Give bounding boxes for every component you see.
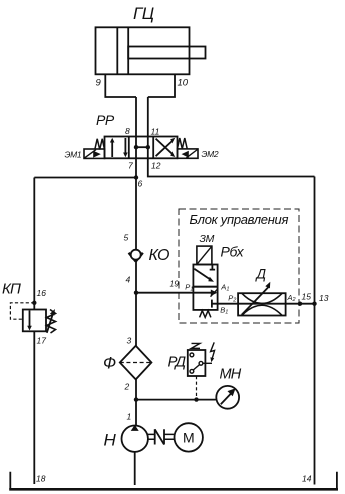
control block dashed box bbox=[179, 209, 299, 323]
valve ЗМ bottom square bbox=[193, 287, 217, 310]
valve ЗМ solenoid box bbox=[197, 246, 212, 264]
pressure switch РД body bbox=[188, 350, 206, 376]
valve РР right solenoid ЭМ2 bbox=[178, 149, 199, 158]
svg-text:Р1: Р1 bbox=[185, 282, 193, 292]
svg-text:15: 15 bbox=[302, 292, 312, 302]
svg-text:Н: Н bbox=[104, 431, 117, 450]
svg-text:РР: РР bbox=[96, 112, 115, 128]
relief valve КП adjust arrow bbox=[47, 314, 53, 333]
relief valve КП spring bbox=[47, 310, 56, 334]
svg-text:МН: МН bbox=[220, 367, 242, 383]
svg-text:ЗМ: ЗМ bbox=[200, 233, 215, 245]
wire cylinder left port bbox=[105, 74, 136, 97]
svg-text:13: 13 bbox=[319, 293, 329, 303]
svg-text:11: 11 bbox=[151, 127, 160, 137]
throttle Д adjust arrow bbox=[242, 287, 269, 315]
valve РР left solenoid ЭМ1 bbox=[84, 149, 105, 158]
relief valve КП body bbox=[23, 310, 46, 332]
valve РР left square down arrow bbox=[124, 138, 126, 155]
valve ЗМ top square blocked port bbox=[210, 265, 215, 270]
junction 4 bbox=[134, 291, 138, 295]
manometer МН bbox=[216, 386, 239, 409]
wire valve port 12 to tank return bbox=[148, 158, 315, 176]
pressure switch РД contact line bbox=[203, 362, 212, 364]
junction 6 bbox=[134, 175, 138, 179]
svg-text:1: 1 bbox=[127, 412, 132, 422]
valve РР left square up arrow bbox=[111, 140, 113, 157]
svg-text:14: 14 bbox=[302, 474, 312, 484]
svg-text:16: 16 bbox=[37, 288, 47, 298]
svg-text:19: 19 bbox=[170, 279, 180, 289]
wire junction 6 down to КО bbox=[135, 178, 137, 251]
junction КП pilot bbox=[32, 301, 36, 305]
svg-text:7: 7 bbox=[128, 161, 133, 171]
svg-text:А1: А1 bbox=[220, 282, 229, 292]
junction on return line (13) bbox=[312, 302, 316, 306]
wire to manometer МН bbox=[136, 399, 217, 401]
wire КП branch vertical upper bbox=[33, 178, 35, 310]
cylinder piston line 2 bbox=[127, 27, 129, 74]
wire tank return right side bbox=[314, 177, 316, 485]
svg-text:КО: КО bbox=[149, 247, 169, 264]
wire junction 4 to valve ЗМ (node 19, P1) bbox=[136, 292, 193, 294]
pressure switch РД lightning bbox=[211, 342, 215, 358]
filter Ф element dashed bbox=[120, 362, 152, 364]
valve РР left spring bbox=[95, 139, 105, 150]
svg-text:9: 9 bbox=[96, 78, 102, 89]
check valve КО ball bbox=[131, 250, 141, 260]
svg-text:Ф: Ф bbox=[103, 355, 116, 373]
wire port A to valve (8) bbox=[135, 97, 137, 137]
svg-text:ЭМ1: ЭМ1 bbox=[65, 150, 82, 160]
valve РР right square crossed arrows bbox=[156, 140, 174, 157]
wire КО to junction 4 bbox=[135, 260, 137, 293]
cylinder ГЦ body bbox=[96, 27, 190, 74]
svg-text:18: 18 bbox=[36, 474, 46, 484]
svg-text:2: 2 bbox=[124, 382, 130, 392]
valve ЗМ top square arrow bbox=[194, 269, 211, 281]
pressure switch РД spring bbox=[192, 343, 201, 348]
svg-text:А2: А2 bbox=[287, 293, 296, 303]
svg-text:Р2: Р2 bbox=[228, 293, 236, 303]
check valve КО seat bbox=[129, 253, 143, 262]
svg-text:РД: РД bbox=[168, 354, 187, 371]
svg-text:В1: В1 bbox=[220, 306, 228, 316]
wire junction 4 down to filter Ф bbox=[135, 293, 137, 346]
wire port B to valve (11) bbox=[147, 97, 149, 137]
junction at block border (15) bbox=[298, 302, 302, 306]
valve РР centre square connector bar bbox=[136, 146, 148, 148]
valve ЗМ spring bbox=[200, 311, 211, 318]
svg-text:4: 4 bbox=[126, 275, 131, 285]
valve РР right spring bbox=[178, 138, 188, 149]
filter Ф body bbox=[120, 346, 152, 380]
valve ЗМ bottom square flow arrow to A1 bbox=[193, 292, 211, 294]
svg-text:5: 5 bbox=[124, 233, 129, 243]
svg-text:ЭМ2: ЭМ2 bbox=[202, 149, 219, 159]
svg-text:12: 12 bbox=[151, 161, 161, 171]
svg-text:Рбх: Рбх bbox=[221, 244, 245, 260]
wire ЗМ to throttle Д and to return line bbox=[212, 303, 315, 305]
valve ЗМ top square bbox=[193, 265, 217, 287]
wire valve port 7 down to junction 6 bbox=[135, 158, 137, 177]
svg-text:Блок управления: Блок управления bbox=[190, 212, 289, 227]
throttle Д venturi arcs bbox=[242, 293, 282, 315]
svg-text:6: 6 bbox=[138, 179, 143, 189]
motor М bbox=[175, 423, 203, 451]
tank bbox=[10, 472, 337, 489]
wire filter to junction 1 bbox=[135, 379, 137, 425]
junction МН line bbox=[134, 397, 138, 401]
svg-text:17: 17 bbox=[37, 336, 47, 346]
valve РР divider 1 bbox=[128, 137, 130, 159]
cylinder rod bbox=[128, 47, 205, 59]
svg-text:М: М bbox=[183, 430, 195, 446]
wire pump to tank bbox=[134, 452, 136, 485]
relief valve КП arrow bbox=[29, 311, 31, 329]
valve РР centre square pass lines bbox=[135, 137, 137, 159]
coupling pump-motor bbox=[148, 434, 175, 439]
РД drain dashed wire bbox=[196, 376, 198, 400]
wire junction 6 left to КП branch bbox=[34, 177, 136, 179]
junction РД drain bbox=[194, 397, 198, 401]
svg-text:ГЦ: ГЦ bbox=[133, 4, 154, 23]
valve РР divider 2 bbox=[152, 137, 154, 159]
svg-text:10: 10 bbox=[178, 78, 189, 89]
wire КП branch vertical lower to tank bbox=[33, 331, 35, 484]
svg-text:КП: КП bbox=[2, 281, 21, 298]
КП pilot dashed line bbox=[10, 303, 34, 319]
wire cylinder right port bbox=[148, 74, 175, 97]
throttle Д body bbox=[238, 293, 286, 315]
svg-text:8: 8 bbox=[125, 126, 130, 136]
svg-text:3: 3 bbox=[127, 336, 132, 346]
valve ЗМ bottom square blocked port B1 bbox=[211, 300, 213, 308]
svg-text:Д: Д bbox=[255, 267, 267, 282]
pump Н bbox=[122, 426, 148, 452]
valve РР body bbox=[105, 137, 178, 159]
cylinder piston line 1 bbox=[116, 27, 118, 74]
